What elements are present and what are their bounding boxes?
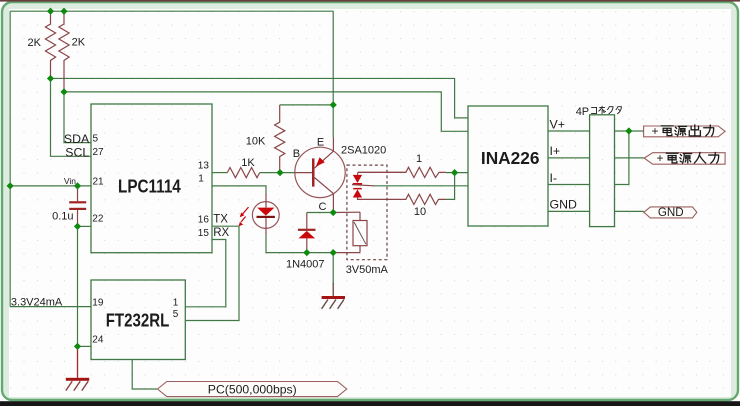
IC U2 FT232RL box bbox=[91, 280, 185, 360]
svg-text:C: C bbox=[319, 201, 327, 213]
flag +power output bbox=[644, 124, 726, 138]
wire RX to FT232RL pin1 bbox=[185, 240, 226, 307]
flag +power input bbox=[644, 151, 725, 165]
svg-text:27: 27 bbox=[93, 147, 105, 158]
junction shunt bbox=[451, 169, 458, 176]
junction SCL bbox=[47, 75, 54, 82]
wire LED to gnd node bbox=[266, 234, 333, 253]
svg-text:4P: 4P bbox=[576, 106, 589, 118]
junction diode gnd bbox=[303, 249, 310, 256]
svg-text:FT232RL: FT232RL bbox=[106, 311, 170, 331]
wire pin22 bbox=[78, 225, 92, 227]
svg-text:LPC1114: LPC1114 bbox=[118, 176, 181, 197]
resistor 2K #1 bbox=[28, 11, 56, 78]
svg-text:2K: 2K bbox=[72, 37, 86, 49]
wire SCL horizontal to INA226 bbox=[51, 78, 469, 117]
wire GND to flag bbox=[615, 210, 644, 212]
wire top 3.3V rail bbox=[10, 10, 333, 12]
wire pin13 to 1K bbox=[212, 172, 227, 174]
LED D1 bbox=[252, 194, 279, 234]
svg-text:I-: I- bbox=[550, 171, 558, 185]
svg-text:2K: 2K bbox=[28, 37, 42, 49]
wire 1K to base node bbox=[260, 172, 296, 174]
svg-text:PC(500,000bps): PC(500,000bps) bbox=[208, 382, 297, 396]
svg-text:19: 19 bbox=[92, 297, 104, 308]
resistor 10K bbox=[246, 105, 285, 172]
red wire gnd node to module bbox=[333, 252, 360, 254]
svg-text:5: 5 bbox=[173, 309, 179, 320]
resistor 2K #2 bbox=[59, 11, 86, 92]
svg-text:V+: V+ bbox=[550, 118, 565, 132]
junction Vin rail bbox=[7, 182, 14, 189]
svg-text:5: 5 bbox=[93, 133, 99, 144]
svg-text:I+: I+ bbox=[550, 144, 561, 158]
wire SDA horizontal to INA226 bbox=[64, 92, 468, 131]
svg-text:0.1u: 0.1u bbox=[52, 210, 73, 222]
svg-text:10K: 10K bbox=[246, 136, 266, 148]
svg-text:Vin: Vin bbox=[64, 176, 76, 186]
svg-text:SCL: SCL bbox=[65, 145, 89, 159]
IC U1 LPC1114 box bbox=[64, 104, 230, 253]
junction base node bbox=[276, 169, 283, 176]
wire 3.3V to FT232RL pin19 bbox=[10, 306, 91, 308]
svg-text:TX: TX bbox=[213, 214, 228, 226]
wire SCL down to LPC1114 bbox=[51, 78, 92, 156]
wire GND vertical cap/pin22/pin24 bbox=[77, 226, 79, 346]
LED light arrows bbox=[239, 207, 249, 226]
LED module upper diode bbox=[353, 172, 406, 184]
junction gnd node bbox=[330, 249, 337, 256]
wire I- pin bbox=[548, 184, 590, 186]
flag PC(500,000bps) bbox=[158, 382, 347, 397]
capacitor 0.1u bbox=[52, 186, 86, 227]
svg-text:GND: GND bbox=[658, 206, 684, 219]
svg-text:1: 1 bbox=[173, 297, 179, 308]
wire gnd node down to ground bbox=[332, 253, 334, 284]
svg-text:1K: 1K bbox=[241, 157, 255, 169]
module 3V50mA lamp bbox=[346, 212, 389, 276]
connector CN1 4P box bbox=[576, 106, 622, 227]
junction rail R2 bbox=[60, 8, 67, 15]
svg-text:1: 1 bbox=[416, 153, 422, 165]
resistor 1 (shunt) bbox=[358, 153, 446, 178]
junction C node bbox=[330, 209, 337, 216]
wire pin24 bbox=[78, 345, 92, 347]
wire LED module mid node bbox=[352, 185, 374, 186]
katakana ko ne ku ta bbox=[591, 106, 621, 113]
svg-text:3.3V24mA: 3.3V24mA bbox=[11, 296, 63, 308]
wire left 3.3V rail bbox=[9, 11, 11, 306]
junction V+ out bbox=[625, 127, 632, 134]
wire pin1 to LED bbox=[212, 186, 266, 195]
junction Vin cap bbox=[74, 182, 81, 189]
wire LED mid node to INA226 bbox=[374, 185, 468, 187]
svg-text:1N4007: 1N4007 bbox=[286, 258, 325, 270]
svg-text:GND: GND bbox=[550, 198, 577, 212]
wire Vin bbox=[10, 185, 91, 187]
diode 1N4007 bbox=[286, 213, 325, 271]
svg-text:10: 10 bbox=[414, 206, 426, 218]
wire I+ to input flag bbox=[615, 157, 645, 159]
wire V+ to I- tie bbox=[615, 131, 629, 185]
junction SDA bbox=[60, 88, 67, 95]
wire TX to FT232RL pin5 bbox=[185, 226, 239, 320]
wire SDA down to LPC1114 bbox=[64, 92, 91, 143]
svg-text:E: E bbox=[317, 136, 324, 148]
wire shunt junction to INA226 bbox=[446, 172, 468, 174]
transistor Q1 2SA1020 bbox=[293, 136, 386, 213]
wire I+ pin bbox=[548, 157, 590, 159]
svg-text:3V50mA: 3V50mA bbox=[346, 264, 389, 276]
svg-text:RX: RX bbox=[213, 227, 229, 239]
svg-text:2SA1020: 2SA1020 bbox=[341, 145, 386, 157]
resistor 1K bbox=[227, 157, 259, 178]
wire C node horizontal bbox=[307, 212, 333, 214]
flag GND bbox=[644, 206, 697, 219]
ground symbol at transistor stage bbox=[322, 283, 345, 309]
junction pin22 bbox=[74, 223, 81, 230]
svg-text:21: 21 bbox=[93, 176, 105, 187]
wire V+ pin bbox=[548, 130, 590, 132]
wire V+ to output flag bbox=[615, 130, 644, 132]
dashed module box bbox=[347, 165, 387, 260]
wire 10K top bbox=[280, 104, 334, 106]
svg-text:1: 1 bbox=[198, 174, 204, 185]
svg-text:24: 24 bbox=[92, 334, 104, 345]
LED module lower diode bbox=[353, 188, 362, 200]
wire FT232RL bottom to PC flag bbox=[132, 360, 157, 390]
svg-text:22: 22 bbox=[92, 214, 104, 225]
bottom black strip bbox=[0, 401, 740, 406]
svg-text:SDA: SDA bbox=[64, 132, 90, 146]
IC U3 INA226 box bbox=[468, 106, 577, 226]
wire emitter drop from rail bbox=[332, 11, 334, 105]
svg-text:13: 13 bbox=[198, 160, 210, 171]
junction rail R1 bbox=[47, 8, 54, 15]
ground symbol at FT232RL bbox=[66, 346, 89, 390]
wire GND pin bbox=[548, 210, 590, 212]
top dark strip bbox=[0, 0, 740, 2]
svg-text:B: B bbox=[293, 148, 300, 160]
red wire C node to module bbox=[333, 211, 360, 213]
wire emitter below junction bbox=[332, 105, 334, 137]
resistor 10 bbox=[358, 194, 446, 218]
svg-text:15: 15 bbox=[198, 228, 210, 239]
svg-text:+: + bbox=[657, 151, 664, 165]
svg-text:INA226: INA226 bbox=[481, 148, 540, 168]
svg-text:16: 16 bbox=[198, 215, 210, 226]
wire shunt junction vertical bbox=[446, 173, 455, 200]
svg-text:+: + bbox=[652, 124, 659, 138]
junction pin24 bbox=[74, 343, 81, 350]
junction emitter node bbox=[330, 101, 337, 108]
